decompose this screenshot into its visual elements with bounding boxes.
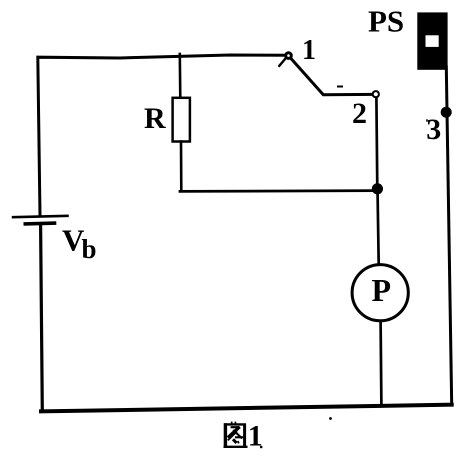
node 2 contact circle bbox=[373, 91, 379, 97]
svg-text:PS: PS bbox=[368, 4, 404, 39]
switch arm diagonal 1-to-2 bbox=[290, 58, 372, 95]
svg-text:1: 1 bbox=[302, 35, 316, 66]
svg-text:2: 2 bbox=[352, 97, 367, 130]
switch arrow tick at pole bbox=[279, 59, 285, 66]
wire top: battery top to switch pole bbox=[38, 55, 287, 216]
speck after caption bbox=[260, 446, 263, 449]
svg-text:3: 3 bbox=[426, 113, 441, 146]
resistor R body bbox=[173, 98, 190, 142]
wire: junction down to meter P bbox=[378, 188, 379, 265]
svg-text:R: R bbox=[144, 102, 166, 135]
svg-text:b: b bbox=[82, 234, 97, 264]
photoswitch PS body bbox=[417, 12, 447, 69]
battery Vb short plate bbox=[25, 221, 54, 225]
node 1 contact circle bbox=[286, 53, 292, 59]
wire left lower: battery to bottom-left corner bbox=[41, 226, 43, 412]
wire: horizontal run to junction bbox=[180, 189, 375, 193]
speck left of label 3 bbox=[426, 119, 428, 121]
wire: top wire down to resistor bbox=[179, 54, 182, 99]
caption: hanzi TU (figure) drawn as strokes bbox=[224, 422, 248, 448]
wire: meter P to bottom wire bbox=[379, 321, 382, 405]
photoswitch PS window bbox=[426, 35, 439, 47]
speck above switch horizontal bbox=[337, 86, 343, 88]
svg-text:P: P bbox=[372, 272, 392, 308]
junction dot (node between R, 2 and P) bbox=[372, 183, 383, 194]
wire right: PS down to bottom-right corner bbox=[446, 67, 451, 405]
meter P circle bbox=[352, 265, 408, 321]
wire bottom bbox=[41, 405, 452, 412]
node 3 dot bbox=[441, 107, 452, 118]
speck below bottom wire bbox=[329, 417, 332, 420]
battery Vb long plate bbox=[13, 216, 67, 217]
wire: node 2 down to junction bbox=[375, 98, 379, 188]
wire: resistor bottom drop bbox=[180, 142, 183, 192]
